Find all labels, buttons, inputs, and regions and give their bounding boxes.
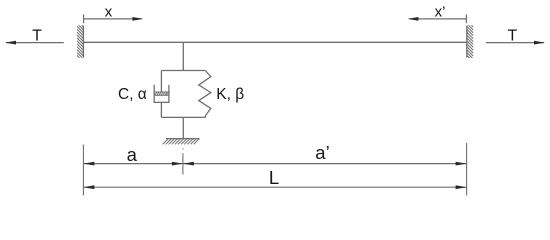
svg-text:C, α: C, α bbox=[118, 86, 147, 103]
damper cylinder cup bbox=[154, 85, 169, 103]
torsion bar / shaft bbox=[83, 41, 466, 43]
svg-text:T: T bbox=[508, 28, 518, 45]
dimension line a bbox=[83, 162, 182, 166]
dimension x arrow bbox=[84, 15, 144, 24]
damper rod lower bbox=[160, 102, 162, 117]
svg-text:L: L bbox=[269, 167, 279, 188]
rod from bottom plate to ground bbox=[182, 117, 184, 138]
svg-text:T: T bbox=[32, 28, 42, 45]
damper piston (hatched) bbox=[154, 92, 169, 95]
label T left bbox=[32, 28, 42, 45]
svg-text:a: a bbox=[127, 144, 138, 165]
dimension line L bbox=[83, 185, 466, 189]
witness line center bbox=[182, 148, 184, 174]
svg-text:x’: x’ bbox=[435, 3, 446, 20]
label T right bbox=[508, 28, 518, 45]
dimension line a' bbox=[183, 162, 467, 166]
label x bbox=[105, 3, 113, 20]
damper rod upper bbox=[160, 71, 162, 93]
svg-text:a’: a’ bbox=[315, 142, 329, 163]
label C, alpha bbox=[118, 86, 147, 103]
attachment rod from bar to top plate bbox=[182, 42, 184, 70]
svg-text:x: x bbox=[105, 3, 113, 20]
witness line left bbox=[82, 145, 84, 196]
bottom plate bbox=[161, 116, 205, 118]
label a bbox=[127, 144, 138, 165]
svg-text:K, β: K, β bbox=[216, 86, 244, 103]
label L bbox=[269, 167, 279, 188]
torque arrow T right bbox=[486, 41, 545, 45]
spring K bbox=[199, 71, 211, 118]
torque arrow T left bbox=[5, 41, 64, 45]
top plate bbox=[161, 70, 205, 72]
ground bbox=[163, 139, 200, 145]
label K, beta bbox=[216, 86, 244, 103]
label a' bbox=[315, 142, 329, 163]
label x' bbox=[435, 3, 446, 20]
dimension x' arrow bbox=[407, 15, 466, 24]
wall right support bbox=[467, 21, 473, 62]
witness line right bbox=[466, 143, 468, 196]
wall left support bbox=[77, 21, 83, 62]
